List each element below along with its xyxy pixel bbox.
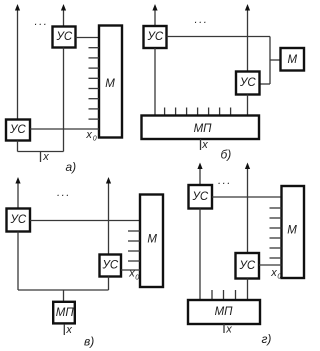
svg-text:УС: УС: [239, 260, 256, 272]
wire US1b bottom to MP: [154, 48, 156, 116]
svg-text:...: ...: [57, 187, 71, 199]
svg-text:УС: УС: [102, 260, 119, 272]
wire US2a right to M a (x0 net): [30, 128, 99, 130]
block M b: [281, 48, 305, 71]
svg-text:УС: УС: [9, 124, 26, 136]
svg-text:x: x: [65, 324, 72, 336]
MP b input ticks: [164, 108, 166, 116]
svg-text:а): а): [66, 160, 77, 174]
wire US1a bottom down: [63, 48, 65, 152]
wire US1v bottom down: [17, 232, 19, 291]
svg-text:УС: УС: [147, 31, 164, 43]
wire US1b top output: [154, 9, 156, 26]
svg-text:...: ...: [35, 16, 49, 28]
M a input ticks: [89, 47, 100, 49]
wire US2b top output: [247, 9, 249, 72]
svg-text:0: 0: [135, 274, 139, 281]
arrow head left output a: [15, 4, 20, 11]
svg-text:МП: МП: [56, 307, 75, 319]
block MP v: [53, 302, 75, 324]
wire US2g bottom to MP g: [247, 279, 249, 301]
node x input tick v: [63, 325, 65, 335]
wire US1v top output: [17, 182, 19, 209]
block M a: [99, 26, 122, 138]
block MP g: [188, 300, 260, 324]
node x input tick b: [200, 139, 202, 150]
wire US2v top output: [108, 182, 110, 255]
wire US1a right to M a: [76, 37, 100, 39]
wire bottom horizontal a: [18, 151, 64, 153]
block US1g: [189, 185, 213, 209]
svg-text:г): г): [262, 332, 272, 346]
svg-text:М: М: [288, 54, 298, 66]
wire US2v bottom down: [108, 277, 110, 291]
arrow head US2g output: [245, 163, 250, 170]
wire bottom horizontal v: [18, 289, 109, 291]
svg-text:x: x: [42, 151, 49, 163]
wire US1g top output: [199, 168, 201, 186]
svg-text:x: x: [270, 267, 277, 279]
wire US2g top output: [247, 168, 249, 254]
arrow head US1a output: [61, 4, 66, 11]
block US2b: [236, 72, 260, 95]
arrow head US1v output: [15, 177, 20, 184]
wire US1g bottom to MP g: [199, 209, 201, 301]
wire US2b bottom to MP: [247, 95, 249, 116]
block US1b: [144, 26, 167, 48]
block US2g: [236, 253, 260, 279]
wire junction to US2b: [260, 83, 271, 85]
svg-text:x: x: [201, 139, 208, 151]
block M g: [282, 186, 305, 278]
svg-text:x: x: [225, 323, 232, 335]
block US2a: [6, 120, 30, 141]
svg-text:МП: МП: [215, 306, 234, 318]
wire US2v right to M v (x0 net): [121, 269, 140, 271]
M v input ticks: [128, 230, 140, 232]
svg-text:б): б): [221, 148, 232, 162]
wire junction to M b: [270, 59, 281, 61]
wire left vertical (output of US2a): [17, 9, 19, 120]
arrow head US1g output: [197, 163, 202, 170]
arrow head US2b output: [245, 4, 250, 11]
arrow head US2v output: [106, 177, 111, 184]
svg-text:УС: УС: [239, 77, 256, 89]
node x input tick a: [40, 152, 42, 163]
svg-text:...: ...: [195, 14, 209, 26]
svg-text:0: 0: [93, 136, 97, 143]
svg-text:УС: УС: [56, 31, 73, 43]
block M v: [140, 195, 163, 288]
wire US1b right to junction: [167, 36, 271, 38]
wire US1v right to M v: [30, 220, 140, 222]
block MP b: [142, 116, 260, 140]
svg-text:М: М: [105, 78, 115, 90]
wire US2g right to M g (x0 net): [259, 264, 282, 266]
wire from US1a top: [63, 9, 65, 27]
arrow head US1b output: [152, 4, 157, 11]
MP g input ticks: [211, 290, 213, 300]
wire US1g right to M g: [212, 196, 282, 198]
svg-text:УС: УС: [10, 214, 27, 226]
svg-text:УС: УС: [192, 191, 209, 203]
block US1v: [7, 209, 31, 232]
svg-text:М: М: [147, 234, 157, 246]
svg-text:МП: МП: [194, 123, 213, 135]
wire US2a bottom down: [17, 141, 19, 152]
node x input tick g: [223, 324, 225, 333]
M g input ticks: [270, 207, 282, 209]
block US1a: [53, 27, 76, 48]
block US2v: [100, 255, 122, 277]
wire MP v top: [63, 290, 65, 301]
svg-text:в): в): [84, 334, 94, 348]
svg-text:...: ...: [218, 175, 232, 187]
svg-text:x: x: [85, 129, 92, 141]
svg-text:0: 0: [277, 274, 281, 281]
wire junction vertical b: [269, 37, 271, 85]
svg-text:М: М: [287, 225, 297, 237]
